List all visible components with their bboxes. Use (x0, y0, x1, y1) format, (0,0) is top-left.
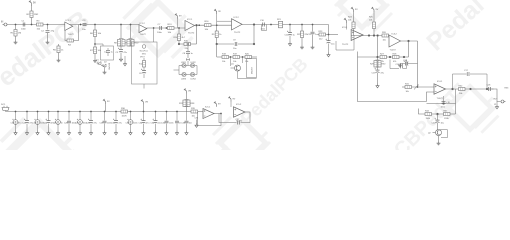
pot wiper arrow (414, 85, 419, 90)
electrolytic C6 inside box (139, 67, 146, 78)
resistor R1 (11, 25, 22, 41)
svg-text:LDR1: LDR1 (181, 62, 187, 64)
loop right of Q2 (440, 130, 448, 138)
op-amp U1.2 (139, 23, 147, 36)
long vertical right (417, 41, 419, 87)
resistor R2 (27, 11, 40, 18)
resistor R7 (90, 47, 102, 59)
power flag 9V top (29, 1, 36, 6)
electrolytic C15 (372, 68, 385, 83)
resistor R4 feedback (67, 39, 74, 46)
svg-text:1u: 1u (111, 52, 113, 54)
resistor R31 into pot (402, 83, 412, 93)
svg-text:1n: 1n (61, 123, 63, 125)
small marks near rail end (195, 118, 200, 128)
switch box Slow/Fast (132, 42, 158, 84)
output jack OUT (493, 99, 506, 106)
node at x216 (216, 24, 218, 26)
wire power rail (5, 111, 7, 112)
ground below C5 (119, 57, 122, 61)
ground arrow below C15 (376, 84, 379, 88)
svg-text:IN: IN (1, 22, 4, 24)
LDR2 (190, 62, 196, 68)
capacitor C8 down (183, 43, 194, 58)
ground below R22 (300, 46, 304, 49)
power flag at U3 (214, 9, 231, 25)
svg-text:IC2.1: IC2.1 (187, 19, 193, 21)
ground below C12 (311, 46, 315, 49)
cap bank C34 (162, 111, 174, 135)
node mid chain x95 (94, 37, 96, 48)
resistor R17 below node (212, 25, 223, 44)
cap bank C33 (151, 111, 162, 135)
cap bank C27 (75, 111, 87, 135)
resistor R36 series rail (121, 108, 128, 118)
vertical up to U4.1 inv input (427, 92, 435, 102)
power flag VB mid (103, 99, 110, 112)
svg-text:LDR3: LDR3 (181, 79, 187, 81)
resistor R21 on wire (277, 19, 283, 28)
svg-text:47u: 47u (146, 123, 149, 125)
feedback row1 U2.2 (216, 24, 255, 45)
svg-text:1M: 1M (18, 33, 21, 35)
box right of Q1 (247, 59, 257, 78)
out corner (492, 89, 501, 102)
svg-text:100n: 100n (157, 32, 163, 34)
resistor R10 R11 pair (127, 25, 139, 47)
resistor R8 R9 parallel pair (114, 25, 129, 50)
power flag LFO1 (214, 102, 221, 107)
cap bank C30 (111, 111, 122, 135)
op-amp U3.1 (342, 27, 363, 46)
svg-text:10n: 10n (189, 123, 192, 125)
power flag bias B (371, 7, 378, 22)
svg-text:IC1.1: IC1.1 (66, 20, 72, 22)
capacitor C4 inside box (104, 48, 113, 56)
feedback row2 wires (217, 44, 257, 57)
svg-text:TL072: TL072 (188, 33, 195, 35)
svg-text:TL072: TL072 (342, 44, 349, 46)
cap bank C26 (64, 111, 76, 135)
ground below Q2 (437, 136, 441, 145)
cap bank C28 (86, 111, 97, 135)
feedback loop LFO2 (219, 112, 250, 123)
feedback loop U3.1 (336, 35, 354, 50)
watermark logo bottom-left (1, 118, 79, 186)
long vertical from x357 (358, 52, 427, 102)
LDR3 (181, 72, 187, 80)
op-amp U4.1 (434, 81, 446, 100)
feedback bottom loop U4.1 (427, 89, 456, 104)
svg-text:TL072: TL072 (234, 32, 241, 34)
cap bank C21 (11, 111, 22, 135)
ground stub at x125 (123, 56, 126, 66)
resistor R32 series out (459, 85, 466, 95)
power flag at U3.1 (344, 18, 347, 30)
capacitor C17 parallel top loop (453, 70, 488, 89)
watermark logo top-right (332, 0, 392, 31)
resistor R15 feedback (184, 41, 191, 50)
watermark logo right (442, 83, 499, 132)
cap bank C22 (22, 111, 33, 135)
dc jack (1, 104, 9, 111)
capacitor C1 series (21, 21, 27, 31)
ldr rails sides (174, 66, 198, 75)
ground below R1 (14, 41, 18, 44)
input jack IN (1, 22, 7, 27)
op-amp U3.2 (389, 33, 401, 51)
op-amp LFO2 (234, 104, 246, 123)
feedback row y57 (358, 56, 409, 58)
box trim pot (95, 44, 114, 60)
resistor R13 series (168, 24, 175, 34)
ldr rail top (179, 65, 197, 67)
wire after U3 (195, 24, 232, 26)
power flag at U2 (175, 14, 182, 29)
svg-text:100R: 100R (122, 115, 127, 117)
svg-text:OUT: OUT (493, 99, 498, 101)
ground below diodes (103, 67, 107, 74)
capacitor C14 parallel loop (390, 60, 407, 69)
feedback loop U1.1 (65, 25, 79, 41)
svg-text:TL072: TL072 (390, 49, 397, 51)
feedback row y114 (419, 104, 456, 115)
resistor R22 chain x302 (297, 24, 309, 46)
svg-text:IC5.2: IC5.2 (236, 104, 242, 106)
capacitor C10 series with loop (260, 20, 272, 31)
svg-text:IC1.2: IC1.2 (140, 23, 146, 25)
svg-text:1N4148: 1N4148 (109, 62, 111, 70)
electrolytic C11 to ground (285, 24, 296, 42)
svg-text:LDR4: LDR4 (191, 79, 197, 81)
resistor R12 inside box (139, 58, 146, 67)
watermark logo bottom-center (213, 117, 273, 169)
feedback vertical U3.2 (408, 41, 410, 57)
resistor R5 down chain (53, 44, 64, 59)
ground below R5 (57, 59, 61, 62)
resistor R3 series (37, 21, 44, 31)
cap bank C24 (44, 111, 55, 135)
drop to feedback row (377, 36, 379, 58)
ground right (495, 102, 498, 109)
wire Q1 bottom (238, 71, 257, 79)
power flag VB right (184, 89, 192, 100)
svg-text:100n: 100n (133, 123, 137, 125)
resistor R37 R38 pair (179, 100, 195, 112)
electrolytic C16 output branch (402, 57, 418, 66)
ground below R7 (93, 59, 97, 62)
feedback row U2.1 (178, 24, 197, 45)
svg-text:47u: 47u (119, 123, 122, 125)
diode D2 (101, 62, 107, 68)
svg-text:2N5457: 2N5457 (252, 66, 254, 74)
power flag bias A (351, 7, 358, 12)
diode D1 (96, 60, 101, 65)
svg-text:DC1: DC1 (1, 104, 6, 106)
wire from 9V down (31, 6, 33, 25)
svg-text:IC4.1: IC4.1 (437, 81, 443, 83)
capacitor C12 chain x312 (308, 24, 319, 46)
node at x130 top (130, 24, 132, 26)
node row2 a (230, 56, 232, 58)
svg-text:SW1: SW1 (142, 54, 146, 56)
lamp element top of cluster (187, 58, 190, 65)
svg-text:47u: 47u (94, 123, 97, 125)
node pot vertical (412, 86, 435, 88)
ldr rail bottom (179, 74, 197, 76)
node at x95 (94, 24, 96, 26)
resistor R16 series (205, 21, 212, 31)
op-amp U1.1 (65, 20, 73, 31)
transistor Q2 (428, 130, 442, 136)
node at R1 (15, 24, 17, 26)
cap bank C31 (126, 111, 138, 135)
resistor R28 (393, 53, 400, 63)
node after U3 (198, 24, 200, 26)
resistor R35 (444, 110, 451, 120)
svg-text:LDR2: LDR2 (191, 62, 197, 64)
svg-text:IC3.2: IC3.2 (392, 33, 398, 35)
ground below C13 (327, 53, 330, 57)
capacitor C9 on feedback row (233, 40, 237, 50)
capacitor C7 series (157, 24, 163, 34)
wire corner into stage 2 (318, 25, 339, 35)
svg-text:IC5.1: IC5.1 (205, 106, 211, 108)
svg-text:3PDT: 3PDT (140, 57, 146, 59)
op-amp LFO1 (203, 106, 214, 118)
node at C1/R2 (31, 24, 33, 26)
resistor R19 (233, 54, 240, 63)
power flag VB mid2 (141, 100, 149, 112)
node row2 b (242, 56, 244, 58)
node after C7 (166, 27, 168, 29)
electrolytic C13 (326, 34, 336, 53)
cap bank C35 (175, 111, 181, 135)
capacitor C3 series (82, 20, 87, 31)
resistor R26 series (382, 32, 389, 42)
ground below C2 (46, 41, 50, 44)
wire mid top (147, 27, 186, 29)
electrolytic C20 (432, 114, 445, 130)
resistor R6 (90, 25, 102, 37)
wire U3.2 out (401, 40, 418, 42)
svg-text:TL072: TL072 (437, 98, 444, 100)
wire into U3.2 (388, 35, 391, 37)
resistor R39 series rail2 (191, 108, 198, 118)
wire main top (7, 24, 139, 26)
cap bank C29 (100, 111, 112, 135)
resistor R14 below wire (174, 27, 186, 44)
resistor R27 (380, 53, 387, 63)
wire below box (143, 84, 145, 89)
power flag LFO2 (228, 97, 235, 108)
svg-text:47u: 47u (18, 123, 21, 125)
LDR1 (181, 62, 187, 68)
cap bank C25 (53, 111, 63, 135)
node into switch box (153, 27, 155, 42)
svg-text:Slow/Fast: Slow/Fast (140, 50, 149, 53)
cap bank C23 (33, 111, 45, 135)
watermark logo big center-left (124, 0, 193, 58)
cap bank C38 (182, 112, 192, 135)
node at U1.1 output (80, 24, 82, 26)
LDR4 (190, 72, 196, 80)
transistor Q1 (231, 57, 243, 71)
op-amp U2.1 (185, 19, 195, 35)
resistor R24 bias A (348, 12, 355, 35)
svg-text:TL072: TL072 (140, 34, 147, 36)
svg-text:100n: 100n (169, 123, 173, 125)
svg-text:TL072: TL072 (68, 34, 75, 36)
svg-text:IC2.2: IC2.2 (234, 17, 240, 19)
resistor R20 (245, 54, 252, 63)
svg-text:9V: 9V (33, 3, 36, 5)
ground arrow below C11 (288, 42, 291, 46)
cap bank C32 (139, 111, 150, 135)
resistor R34 (425, 110, 432, 120)
resistor R25 bias B (369, 17, 376, 36)
capacitor C18 series out (487, 84, 492, 91)
wire rail horizontal (6, 111, 204, 113)
svg-text:100n: 100n (441, 107, 445, 109)
node at C2 (47, 24, 49, 26)
wire after U4 (242, 24, 329, 26)
op-amp U2.2 (232, 17, 243, 34)
capacitor C19 down (441, 96, 451, 109)
electrolytic C5 (116, 48, 128, 57)
capacitor C37 integrator (236, 119, 241, 125)
resistor R18 (222, 54, 229, 63)
output wire right (446, 88, 494, 90)
wire U3.1 out (351, 35, 382, 37)
resistor R29 R30 pair down (370, 57, 386, 70)
svg-text:IC3.1: IC3.1 (342, 27, 348, 29)
feedback loop LFO1 (198, 112, 222, 126)
capacitor C2 to ground (41, 25, 55, 41)
resistor R23 series (319, 31, 326, 41)
svg-text:100n: 100n (21, 29, 27, 31)
node at x121 top (120, 24, 122, 26)
node LFO1 out (214, 113, 222, 115)
ground small left of C16 (398, 64, 402, 67)
